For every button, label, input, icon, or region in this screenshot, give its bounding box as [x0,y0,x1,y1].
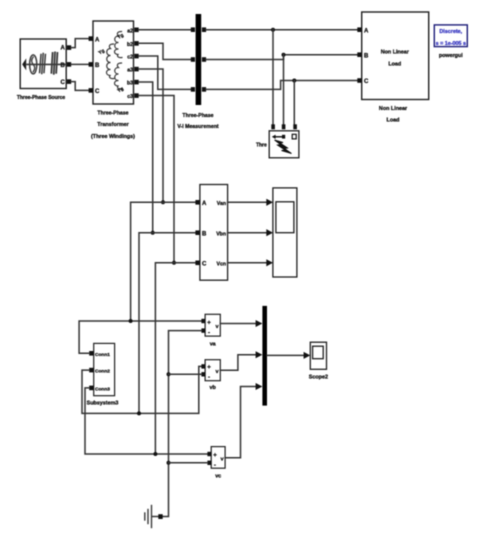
load port C [357,78,369,85]
powergui block [434,25,467,47]
subsystem3 port Conn3 [89,386,110,393]
wire a2 to VI measurement A [139,29,191,31]
arrow Vcn into scope [266,259,273,266]
wire b2 to VI measurement B [139,43,191,59]
transformer port c3 [127,93,138,100]
transformer port B [89,62,100,69]
svg-text:+: + [213,453,217,459]
svg-text:Conn1: Conn1 [95,352,110,358]
transformer port A [89,36,100,43]
svg-text:A: A [364,28,369,34]
label Three-Phase V-I Measurement [177,113,218,130]
svg-text:+: + [207,320,211,326]
transformer port b2 [127,41,139,48]
svg-text:Thre: Thre [256,143,267,149]
voltage measurement block va [205,314,220,336]
voltage measurement block vb [205,360,220,381]
svg-text:Load: Load [387,118,400,124]
va port - [201,328,205,332]
wire Van to scope [228,201,267,203]
svg-text:Scope2: Scope2 [309,375,328,381]
wire node B row to measurement block B and down-leg [139,233,195,414]
wire VI a to load A [206,29,357,31]
ground port [158,514,162,519]
svg-text:Non Linear: Non Linear [379,106,408,112]
arrow va into mux [256,320,263,327]
subsystem3 block [94,343,115,395]
svg-text:A: A [60,46,65,52]
non linear load block [362,12,429,100]
fault top port C [293,124,297,129]
junction node B [151,231,155,235]
svg-text:A: A [95,37,100,43]
svg-text:a3: a3 [127,68,133,74]
ground block [145,506,159,528]
va port + [201,319,205,323]
VI measurement right port a [202,27,206,32]
junction neutral at vc- [167,461,171,465]
svg-text:A: A [202,201,207,207]
svg-text:B: B [60,63,65,69]
junction fault tap C [292,79,296,83]
junction neutral at vb- [167,372,171,376]
load port A [357,27,369,34]
svg-text:b2: b2 [127,42,133,48]
svg-text:powergui: powergui [439,53,463,59]
VI measurement left port C [191,87,195,92]
wire Vcn to scope [228,262,267,264]
svg-text:Three-Phase Source: Three-Phase Source [17,95,66,101]
svg-text:C: C [202,262,207,268]
svg-text:-: - [208,375,210,381]
mux block [262,306,267,406]
wire Conn2 to vb+ riser [82,366,201,413]
wire node A row to measurement block A and down-leg [131,202,196,321]
label Non Linear Load [379,106,408,124]
wire b3 down to node B row [139,82,153,233]
subsystem3 port Conn2 [89,368,110,375]
fault icon lightning bolt [275,140,292,154]
svg-text:(Three Windings): (Three Windings) [91,134,135,140]
three-phase fault block [269,131,299,158]
svg-text:Three-Phase: Three-Phase [97,110,128,116]
svg-text:Three-Phase: Three-Phase [182,113,213,119]
arrow into Scope2 [304,352,311,359]
svg-text:C: C [364,79,369,85]
VI measurement right port b [202,57,206,62]
transformer winding 2 (top right) [114,32,122,58]
transformer port a3 [127,67,138,74]
svg-text:B: B [202,231,207,237]
svg-text:Transformer: Transformer [97,122,129,128]
svg-text:+: + [207,365,211,371]
three-phase source block V1 [20,39,66,89]
source port A [60,45,71,51]
wire source B to transformer B [71,63,90,65]
fault icon small square [292,134,296,139]
fault icon arrow [272,135,285,139]
label Three-Phase Transformer (Three Windings) [91,110,135,140]
svg-text:c3: c3 [127,94,133,100]
svg-text:Subsystem3: Subsystem3 [87,401,119,407]
arrow vc into mux [256,383,263,390]
junction fault tap B [282,53,286,57]
source port B [60,62,71,69]
wire a3 down to node A row [139,69,163,202]
wire phase a net to Conn1 and va+ [79,321,201,353]
svg-text:vb: vb [210,385,217,391]
junction phase b on Conn2 line [137,411,141,415]
svg-text:c2: c2 [127,55,133,61]
wire Vbn to scope [228,232,267,234]
svg-text:C: C [60,80,65,86]
source icon coil 1 [40,54,46,74]
wire fault tap C down [293,81,295,125]
junction node A [161,200,165,204]
wire Conn3 to vc+ line [85,388,207,454]
source icon arrow [22,58,66,70]
svg-text:-: - [214,463,216,469]
VI measurement right port c [202,87,206,92]
svg-text:va: va [210,342,217,348]
source port C [60,79,71,86]
svg-text:Load: Load [388,62,401,68]
svg-text:B: B [95,63,100,69]
transformer port b3 [127,80,139,87]
measurement block port A [195,200,207,207]
three-phase V-I measurement block [196,14,202,105]
fault top port A [271,124,275,129]
svg-text:Discrete,: Discrete, [439,29,462,35]
wire vb output to mux [220,355,256,370]
wire VI b to load B [206,55,357,60]
junction phase c on Conn3 line [153,452,157,456]
wire c2 to VI measurement C [139,56,191,89]
source icon AC ellipse [30,55,37,74]
svg-text:Van: Van [217,201,226,207]
transformer winding 3 (bottom right) [114,63,122,89]
measurement block port C [195,261,207,268]
scope block Scope2 [310,342,326,369]
svg-text:B: B [364,53,369,59]
svg-text:V-I Measurement: V-I Measurement [177,124,218,130]
wire neutral to vb- [169,373,202,375]
wire vc output to mux [225,387,256,458]
svg-text:a2: a2 [127,28,133,34]
wire mux output to Scope2 [267,354,304,356]
svg-text:vc: vc [215,474,221,480]
svg-text:b3: b3 [127,81,133,87]
wire source A to transformer A [71,39,90,48]
three-phase transformer block T1 [93,21,134,104]
load port B [357,52,369,59]
svg-text:Conn2: Conn2 [95,369,110,375]
wire c3 down to node C row [139,96,174,263]
source icon coil 2 [51,52,57,73]
vb port - [201,372,205,376]
wire source C to transformer C [71,82,90,91]
junction node C [172,261,176,265]
voltage measurement block vc [211,447,225,469]
svg-text:Non Linear: Non Linear [381,50,410,56]
arrow Van into scope [266,199,273,206]
transformer port c2 [127,54,138,61]
wire va output to mux [220,323,256,325]
transformer port C [89,88,100,95]
junction fault tap A [271,28,275,32]
wire fault tap B down [283,55,285,125]
transformer port a2 [127,28,138,35]
VI measurement left port B [191,57,195,62]
wire neutral to vc- [169,462,208,464]
subsystem3 port Conn1 [89,351,110,358]
svg-text:-: - [208,331,210,337]
neutral net wire from va- down to ground [162,331,201,517]
svg-text:s = 1e-005 s: s = 1e-005 s [436,41,466,47]
VI measurement left port A [191,27,195,32]
svg-text:C: C [95,89,100,95]
fault top port B [282,124,286,129]
svg-text:Vbn: Vbn [216,231,226,237]
scope block Scope1 [273,188,297,277]
svg-text:Conn3: Conn3 [95,387,110,393]
transformer winding 1 (left) [106,44,114,79]
vc port - [207,461,211,465]
wire VI c to load C [206,81,357,90]
svg-text:Vcn: Vcn [216,262,226,268]
arrow vb into mux [256,351,263,358]
wire fault tap A down [272,30,274,125]
arrow Vbn into scope [266,229,273,236]
vc port + [207,452,211,456]
junction phase a at va+ [129,319,133,323]
wire node C row to measurement block C and down-leg [155,263,195,454]
vb port + [201,364,205,368]
phase voltage measurement block (Van Vbn Vcn) [200,185,228,281]
measurement block port B [195,230,207,237]
